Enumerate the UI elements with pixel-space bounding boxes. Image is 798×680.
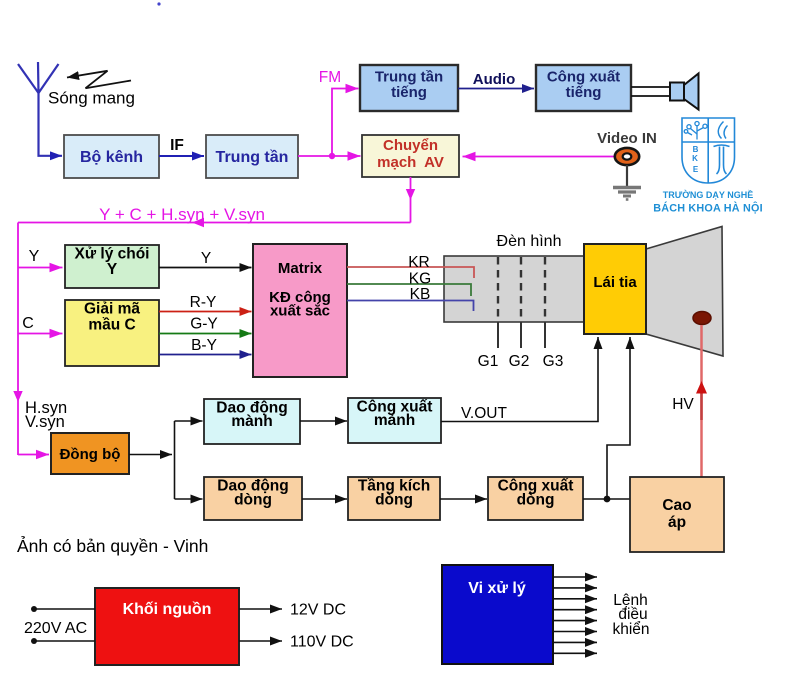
svg-text:tiếng: tiếng bbox=[391, 84, 427, 101]
svg-text:B: B bbox=[693, 145, 699, 154]
wire sync splitter vertical bbox=[174, 421, 176, 499]
svg-text:mạch AV: mạch AV bbox=[377, 154, 444, 171]
svg-text:G2: G2 bbox=[509, 353, 530, 370]
svg-text:IF: IF bbox=[170, 137, 184, 154]
wire 110V out bbox=[239, 640, 282, 642]
block Trung tan bbox=[206, 135, 298, 178]
svg-text:áp: áp bbox=[668, 514, 686, 531]
wire Y+C trunk horizontal bbox=[18, 222, 411, 224]
svg-text:12V DC: 12V DC bbox=[290, 602, 346, 619]
block Trung tan tieng bbox=[360, 65, 458, 111]
wire B-Y bbox=[159, 354, 252, 356]
svg-text:FM: FM bbox=[319, 69, 341, 86]
wire 12V out bbox=[239, 608, 282, 610]
ground bbox=[613, 165, 641, 200]
wire AC in 1 bbox=[31, 606, 95, 612]
svg-text:Audio: Audio bbox=[473, 71, 516, 88]
CRT neck bbox=[444, 256, 584, 322]
wire KR bbox=[347, 267, 474, 278]
wire V.OUT to Lai tia bbox=[441, 337, 598, 422]
block Cong xuat dong bbox=[488, 477, 583, 520]
svg-text:khiển: khiển bbox=[612, 621, 649, 638]
RCA connector bbox=[615, 148, 639, 165]
block Bo kenh bbox=[64, 135, 159, 178]
wire Dong bo out bbox=[129, 454, 172, 456]
svg-text:tiếng: tiếng bbox=[566, 84, 602, 101]
grid G1 line bbox=[497, 257, 499, 348]
svg-text:G1: G1 bbox=[478, 353, 499, 370]
wire KG bbox=[347, 284, 471, 296]
svg-text:110V DC: 110V DC bbox=[290, 634, 354, 651]
wire C branch bbox=[18, 333, 63, 335]
svg-text:Video IN: Video IN bbox=[597, 130, 657, 147]
junction dong bbox=[604, 496, 611, 503]
logo BKE letters bbox=[692, 145, 699, 174]
stray blue mark top bbox=[157, 2, 160, 5]
block Dao dong manh bbox=[204, 399, 300, 444]
wire riser to Lai tia bbox=[607, 337, 630, 499]
block Tang kich dong bbox=[348, 477, 440, 520]
carrier zigzag arrow bbox=[67, 71, 131, 88]
block Dong bo bbox=[51, 433, 129, 474]
grid G2 line bbox=[520, 257, 522, 348]
svg-text:V.OUT: V.OUT bbox=[461, 405, 507, 422]
wire dong row 2 bbox=[440, 498, 487, 500]
svg-text:BÁCH KHOA HÀ NỘI: BÁCH KHOA HÀ NỘI bbox=[653, 202, 763, 215]
svg-text:V.syn: V.syn bbox=[25, 413, 65, 431]
svg-text:Bộ kênh: Bộ kênh bbox=[80, 149, 143, 166]
svg-text:HV: HV bbox=[672, 396, 694, 413]
svg-text:TRƯỜNG DẠY NGHỀ: TRƯỜNG DẠY NGHỀ bbox=[663, 189, 753, 200]
svg-text:Chuyển: Chuyển bbox=[383, 137, 438, 154]
svg-text:R-Y: R-Y bbox=[190, 294, 217, 311]
block Cong xuat tieng bbox=[536, 65, 631, 111]
wire manh row bbox=[300, 420, 347, 422]
svg-text:mành: mành bbox=[374, 412, 415, 429]
block Vi xu ly bbox=[442, 565, 553, 664]
svg-text:mầu C: mầu C bbox=[88, 317, 135, 334]
wire to Dao dong dong bbox=[175, 498, 203, 500]
svg-text:Y: Y bbox=[201, 250, 211, 267]
block Cao ap bbox=[630, 477, 724, 552]
svg-text:dòng: dòng bbox=[517, 492, 555, 509]
svg-text:Xử lý chói: Xử lý chói bbox=[75, 246, 150, 263]
CRT funnel bbox=[646, 227, 723, 357]
block Dao dong dong bbox=[204, 477, 302, 520]
wire HV bbox=[696, 325, 707, 477]
svg-text:KB: KB bbox=[410, 286, 431, 303]
wire Audio bbox=[458, 88, 534, 90]
wire IF bbox=[159, 155, 204, 157]
svg-text:B-Y: B-Y bbox=[191, 337, 217, 354]
svg-text:mành: mành bbox=[231, 413, 272, 430]
svg-text:dòng: dòng bbox=[234, 492, 272, 509]
wire Y+C trunk vertical bbox=[17, 223, 19, 456]
junction FM bbox=[329, 153, 335, 159]
svg-text:G3: G3 bbox=[543, 353, 564, 370]
wire R-Y bbox=[159, 311, 252, 313]
svg-text:Ảnh có bản quyền - Vinh: Ảnh có bản quyền - Vinh bbox=[17, 535, 208, 556]
wire KB bbox=[347, 301, 474, 312]
svg-text:G-Y: G-Y bbox=[190, 316, 218, 333]
wire G-Y bbox=[159, 333, 252, 335]
wire Y to Matrix bbox=[159, 267, 252, 269]
svg-text:xuất sắc: xuất sắc bbox=[270, 302, 330, 320]
logo torch bbox=[714, 145, 730, 174]
wire Cong xuat dong to Cao ap bbox=[583, 498, 630, 500]
svg-text:Matrix: Matrix bbox=[278, 260, 323, 277]
block Matrix bbox=[253, 244, 347, 377]
control wires bbox=[553, 577, 597, 653]
block Lai tia bbox=[584, 244, 646, 334]
svg-text:Trung tần: Trung tần bbox=[375, 69, 443, 86]
wire Trung tan to Chuyen mach AV bbox=[298, 155, 361, 157]
block Giai ma mau C bbox=[65, 300, 159, 366]
wire Y branch bbox=[18, 267, 63, 269]
svg-text:Lái tia: Lái tia bbox=[593, 274, 637, 291]
logo flame bbox=[718, 122, 727, 139]
wire Video IN to AV bbox=[463, 156, 616, 158]
block Cong xuat manh bbox=[348, 398, 441, 443]
svg-text:Giải mã: Giải mã bbox=[84, 301, 140, 318]
svg-text:Công xuất: Công xuất bbox=[547, 69, 620, 86]
anode cap bbox=[693, 312, 711, 325]
wire AC in 2 bbox=[31, 638, 95, 644]
svg-text:Khối nguồn: Khối nguồn bbox=[123, 601, 212, 618]
logo circuit tree bbox=[684, 122, 707, 140]
svg-text:dòng: dòng bbox=[375, 492, 413, 509]
antenna bbox=[18, 62, 59, 93]
svg-text:Y + C + H.syn + V.syn: Y + C + H.syn + V.syn bbox=[99, 205, 265, 224]
svg-text:Sóng mang: Sóng mang bbox=[48, 89, 135, 108]
block Xu ly choi Y bbox=[65, 245, 159, 288]
wire to Dao dong manh bbox=[175, 420, 203, 422]
svg-text:Đèn hình: Đèn hình bbox=[497, 233, 562, 250]
speaker bbox=[631, 74, 699, 110]
svg-text:Đồng bộ: Đồng bộ bbox=[60, 446, 121, 463]
logo shield bbox=[682, 118, 735, 183]
svg-text:KR: KR bbox=[408, 254, 430, 271]
svg-text:Y: Y bbox=[29, 248, 40, 265]
wire dong row 1 bbox=[302, 498, 347, 500]
svg-text:KG: KG bbox=[409, 271, 431, 288]
label Lenh dieu khien bbox=[612, 592, 649, 638]
wire AV down bbox=[410, 177, 412, 223]
svg-text:E: E bbox=[693, 165, 699, 174]
svg-text:Vi xử lý: Vi xử lý bbox=[468, 580, 526, 597]
wire FM riser bbox=[332, 89, 359, 157]
svg-text:220V AC: 220V AC bbox=[24, 620, 87, 637]
svg-text:C: C bbox=[22, 315, 34, 332]
wire antenna to Bo kenh bbox=[39, 92, 63, 156]
svg-text:Cao: Cao bbox=[662, 497, 691, 514]
svg-text:K: K bbox=[692, 154, 698, 163]
block Khoi nguon bbox=[95, 588, 239, 665]
svg-text:Y: Y bbox=[107, 261, 118, 278]
grid G3 line bbox=[544, 257, 546, 348]
block Chuyen mach AV bbox=[362, 135, 459, 177]
svg-text:Trung tần: Trung tần bbox=[216, 149, 289, 166]
wire sync into Dong bo bbox=[18, 454, 49, 456]
